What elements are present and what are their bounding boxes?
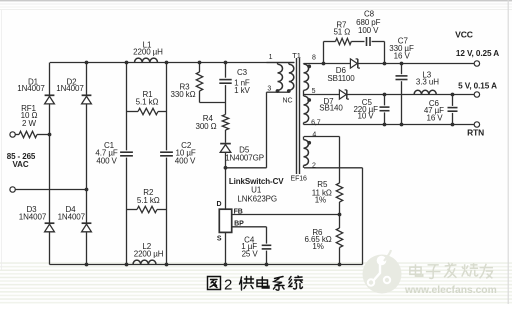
svg-text:S: S — [217, 236, 222, 243]
svg-text:400 V: 400 V — [96, 157, 117, 166]
svg-text:1%: 1% — [315, 195, 326, 204]
svg-text:VAC: VAC — [13, 160, 29, 169]
svg-text:100 V: 100 V — [358, 26, 379, 35]
svg-text:1N4007: 1N4007 — [19, 212, 47, 221]
svg-text:12 V, 0.25 A: 12 V, 0.25 A — [456, 49, 499, 58]
svg-text:1N4007: 1N4007 — [58, 212, 86, 221]
svg-text:2: 2 — [312, 163, 316, 170]
svg-text:RTN: RTN — [467, 127, 484, 137]
svg-text:FB: FB — [234, 208, 243, 215]
svg-text:U1: U1 — [251, 186, 262, 195]
svg-text:2200 µH: 2200 µH — [133, 48, 163, 57]
svg-text:SB1100: SB1100 — [327, 74, 355, 83]
svg-text:5 V, 0.15 A: 5 V, 0.15 A — [458, 81, 497, 90]
svg-text:VCC: VCC — [455, 30, 473, 40]
svg-text:EF16: EF16 — [291, 175, 308, 182]
svg-text:BP: BP — [234, 221, 244, 228]
svg-text:SB140: SB140 — [319, 103, 343, 112]
svg-text:1N4007: 1N4007 — [17, 84, 45, 93]
svg-text:3.3 uH: 3.3 uH — [416, 78, 439, 87]
svg-text:LNK623PG: LNK623PG — [237, 195, 277, 204]
svg-text:400 V: 400 V — [175, 157, 196, 166]
svg-text:www.elecfans.com: www.elecfans.com — [404, 285, 497, 296]
svg-text:D: D — [217, 201, 222, 208]
svg-text:5.1 kΩ: 5.1 kΩ — [136, 97, 159, 106]
svg-text:16 V: 16 V — [394, 52, 411, 61]
svg-text:3: 3 — [267, 85, 271, 92]
svg-text:8: 8 — [312, 55, 316, 62]
svg-text:1: 1 — [269, 54, 273, 61]
svg-text:6,7: 6,7 — [311, 120, 321, 127]
svg-text:2: 2 — [224, 277, 232, 294]
svg-text:16 V: 16 V — [426, 114, 443, 123]
svg-text:5.1 kΩ: 5.1 kΩ — [137, 196, 160, 205]
svg-text:NC: NC — [283, 98, 293, 105]
svg-text:4: 4 — [312, 132, 316, 139]
svg-text:1N4007: 1N4007 — [56, 84, 84, 93]
svg-text:C3: C3 — [237, 68, 248, 77]
svg-text:1%: 1% — [312, 242, 323, 251]
svg-text:1N4007GP: 1N4007GP — [225, 153, 264, 162]
svg-text:25 V: 25 V — [242, 249, 259, 258]
svg-text:10 V: 10 V — [357, 111, 374, 120]
svg-text:2 W: 2 W — [22, 119, 36, 128]
svg-text:2200 µH: 2200 µH — [134, 250, 164, 259]
svg-text:5: 5 — [312, 88, 316, 95]
svg-text:330 kΩ: 330 kΩ — [171, 90, 196, 99]
svg-text:1 kV: 1 kV — [234, 86, 250, 95]
svg-text:T1: T1 — [292, 51, 301, 60]
svg-text:51 Ω: 51 Ω — [333, 28, 350, 37]
svg-text:300 Ω: 300 Ω — [195, 122, 216, 131]
